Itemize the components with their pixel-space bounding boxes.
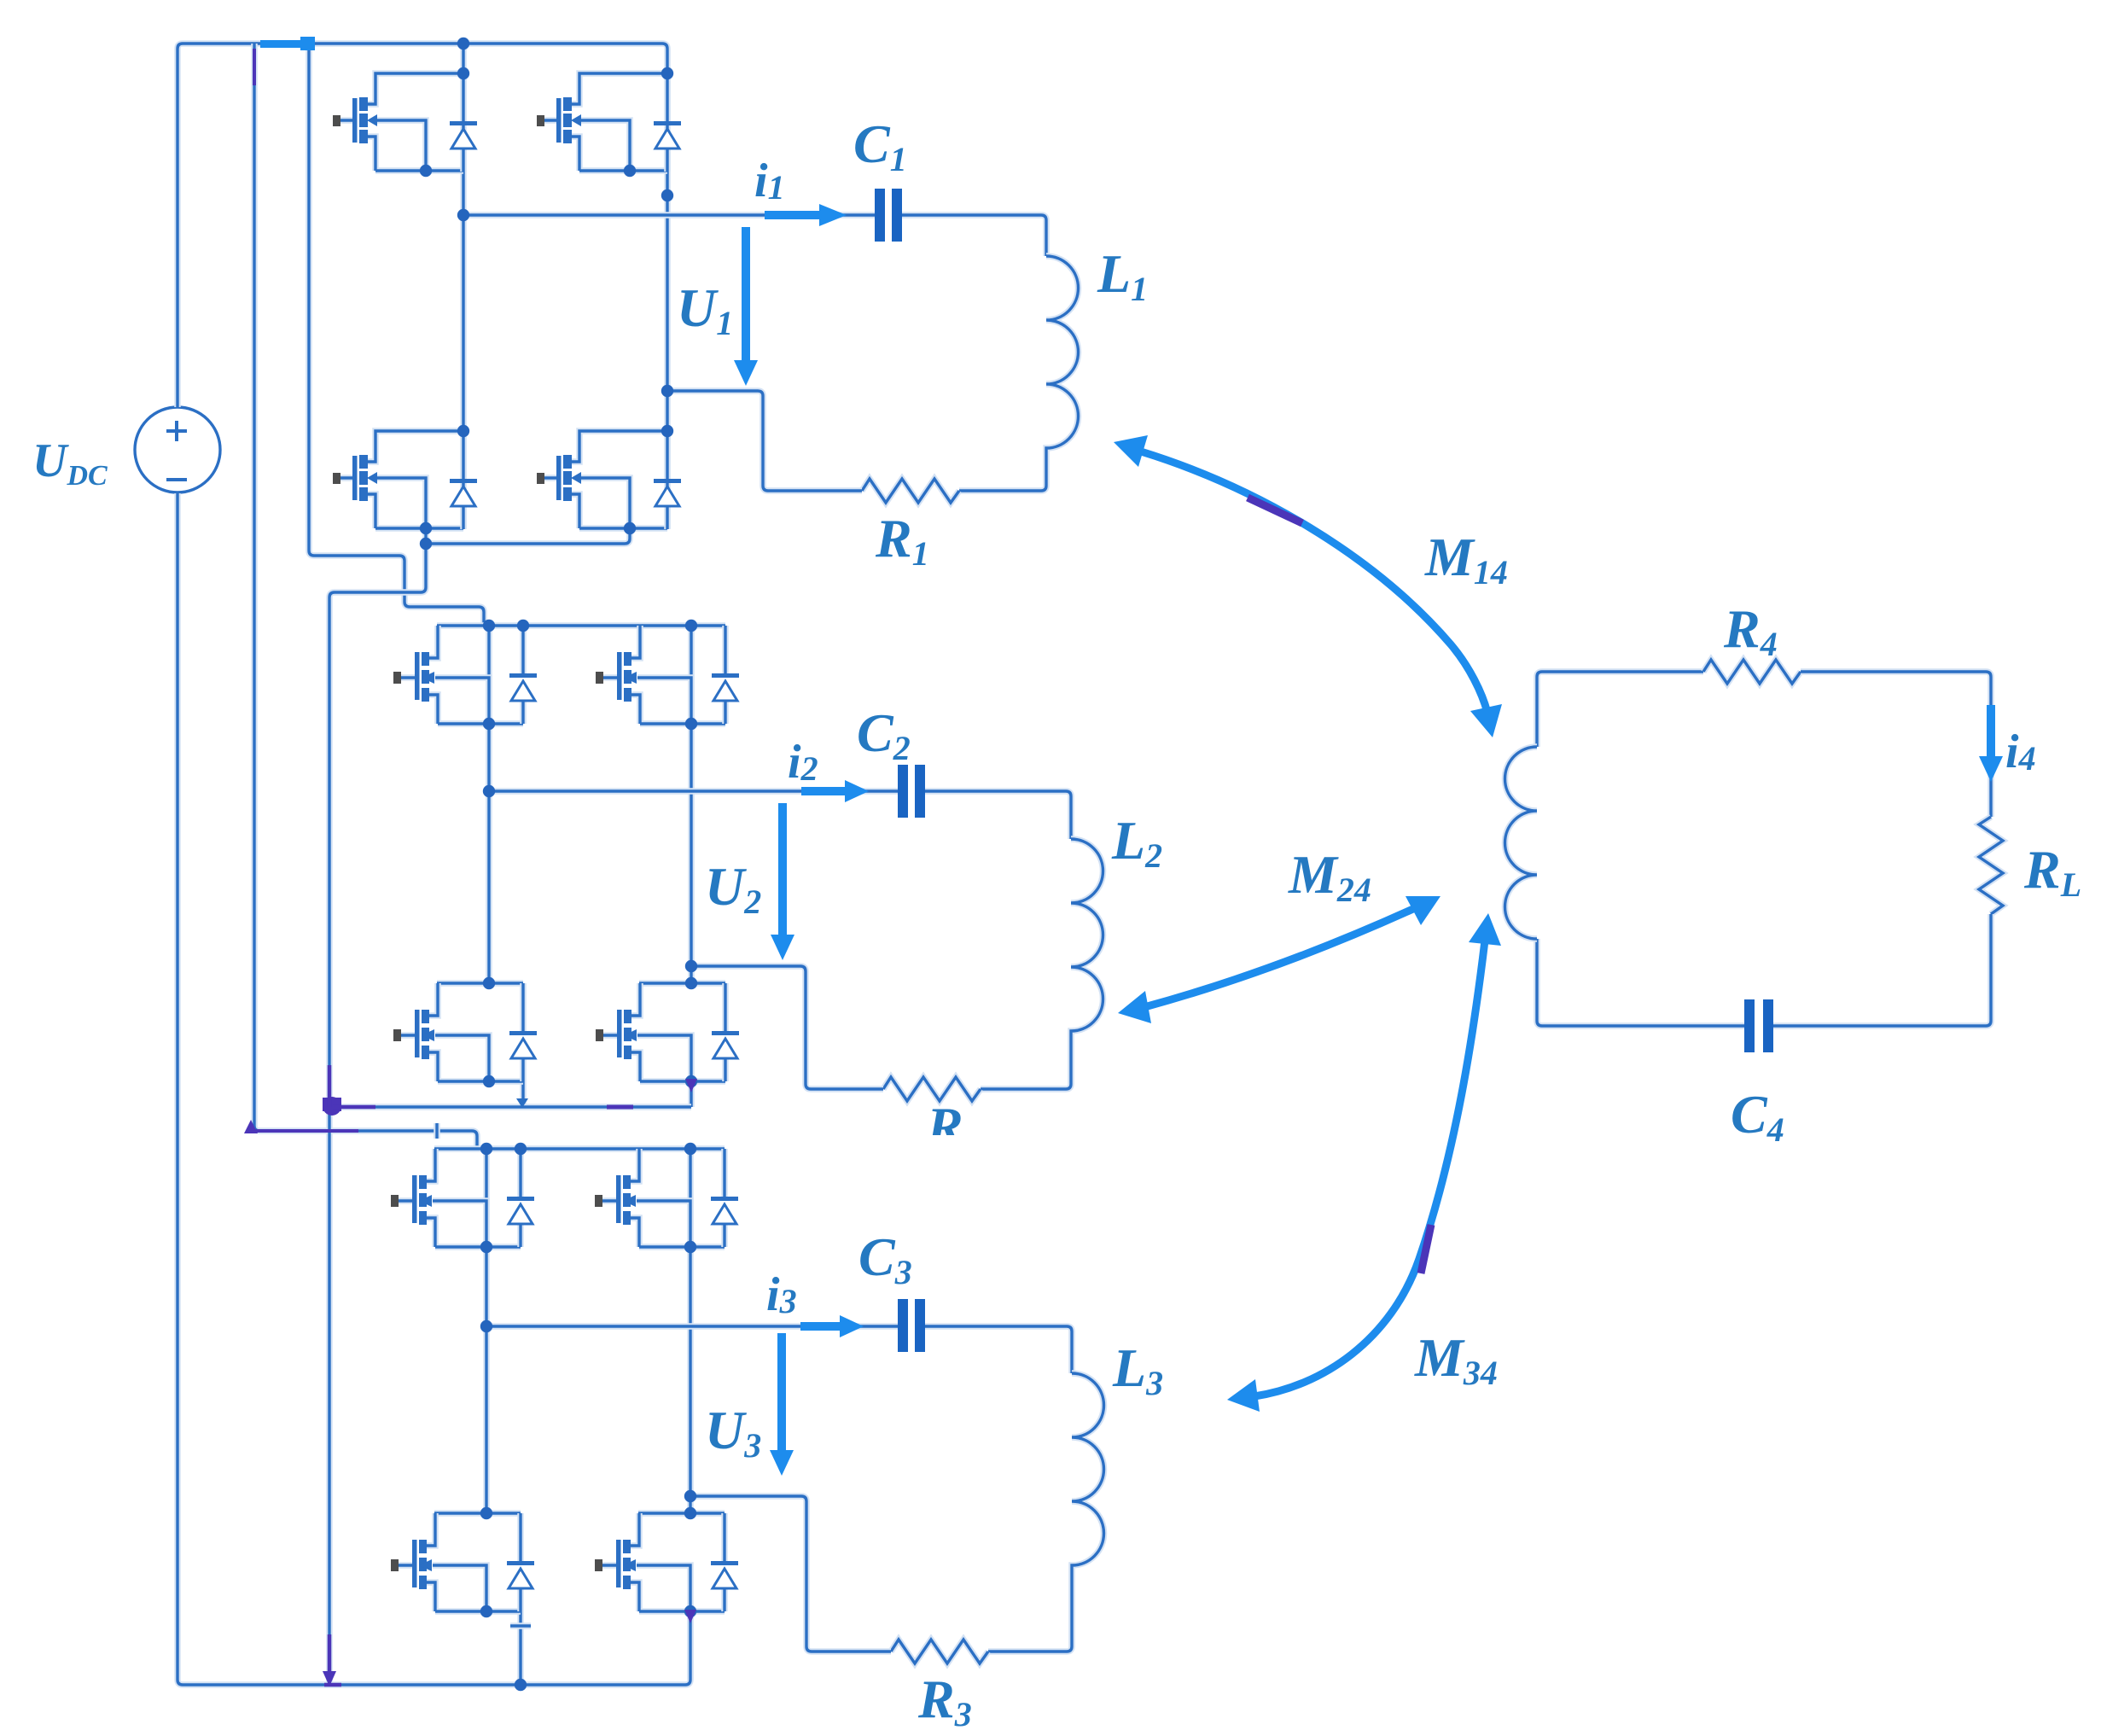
svg-text:RL: RL xyxy=(2023,839,2081,904)
wire bridge3 lower-right drain xyxy=(638,1510,725,1517)
transistor Q13 xyxy=(333,431,463,528)
node Q13 source xyxy=(420,522,432,534)
node bridge1 output A xyxy=(457,209,469,221)
node D31 top xyxy=(515,1143,527,1155)
node Q22 source xyxy=(685,718,697,730)
diode D11 xyxy=(450,73,477,172)
transistor Q32 xyxy=(595,1149,725,1247)
wire bridge2 output to C2 xyxy=(489,788,898,795)
node Q33 source xyxy=(480,1605,492,1617)
arrow mutual M24 xyxy=(1144,908,1415,1007)
wire bridge3 output to C3 xyxy=(486,1323,898,1330)
node Q34 drain xyxy=(684,1507,696,1519)
transistor Q14 xyxy=(537,431,667,528)
transistor Q12 xyxy=(537,73,667,171)
wire bridge2 left leg xyxy=(486,626,492,983)
svg-text:L2: L2 xyxy=(1111,810,1162,875)
node Q32 source xyxy=(684,1241,696,1253)
wire bridge2 lower-left drain xyxy=(437,980,523,987)
wire receiver top right xyxy=(1801,672,1991,817)
node bridge2 output B xyxy=(685,960,697,972)
node indigo junction bridge2 negative xyxy=(323,1097,341,1116)
svg-text:C4: C4 xyxy=(1731,1084,1784,1149)
wire bridge2 top rail xyxy=(437,622,725,629)
node indigo bridge2 lower right xyxy=(685,1079,697,1092)
resistor R2 zigzag xyxy=(883,1077,981,1101)
capacitor C2 xyxy=(898,765,925,818)
node Q24 drain xyxy=(685,977,697,989)
wire positive bus and bridge1 top rail and bridge1 right leg xyxy=(178,44,667,528)
wire bridge1 left leg xyxy=(460,44,467,528)
svg-text:U2: U2 xyxy=(705,856,761,921)
node Q21 source xyxy=(483,718,495,730)
node Q14 source xyxy=(624,522,636,534)
node Q23 drain xyxy=(483,977,495,989)
node indigo bridge3 lower right xyxy=(684,1610,696,1623)
wire indigo bus2 top xyxy=(253,49,256,85)
svg-text:M14: M14 xyxy=(1424,527,1508,591)
capacitor C1 xyxy=(875,189,902,242)
diode D14 xyxy=(654,431,681,529)
transistor Q33 xyxy=(391,1513,521,1611)
wire bridge3 lower-left drain xyxy=(434,1510,521,1517)
node Q24 source xyxy=(685,1075,697,1087)
inductor L3 xyxy=(988,1373,1104,1652)
diode D24 xyxy=(712,983,739,1081)
diode D31 xyxy=(507,1149,534,1247)
wire bridge2 stub tick xyxy=(434,1123,440,1139)
node Q12 drain xyxy=(661,67,673,79)
node bridge3 negative xyxy=(515,1679,527,1691)
wire indigo segment M14 xyxy=(1248,498,1302,523)
svg-text:C1: C1 xyxy=(853,114,907,178)
svg-text:i4: i4 xyxy=(2005,725,2036,778)
diode D32 xyxy=(711,1149,738,1247)
svg-text:L3: L3 xyxy=(1112,1337,1163,1402)
svg-text:i2: i2 xyxy=(788,736,818,789)
diode D33 xyxy=(507,1513,534,1611)
wire bridge3 right leg xyxy=(687,1149,694,1513)
transistor Q23 xyxy=(393,983,523,1081)
node bridge2 negative arrowhead xyxy=(516,1098,528,1108)
wire R2 to bridge2 midpoint xyxy=(691,966,883,1089)
wire bridge1 negative return xyxy=(329,544,426,1685)
node bridge3 rail right xyxy=(684,1143,696,1155)
transistor Q21 xyxy=(393,626,523,724)
inductor L1 xyxy=(959,256,1079,491)
wire receiver top left xyxy=(1537,672,1703,747)
arrow current i4 xyxy=(1987,705,1995,758)
node Q11 drain xyxy=(457,67,469,79)
node D21 top xyxy=(517,620,529,632)
transistor Q22 xyxy=(596,626,725,724)
svg-text:M24: M24 xyxy=(1288,844,1371,909)
node Q34 source xyxy=(684,1605,696,1617)
wire C3 to L3 xyxy=(925,1326,1072,1373)
wire receiver right bottom xyxy=(1773,914,1991,1026)
node bridge1 negative xyxy=(420,538,432,550)
wire bus to bridge3 supply xyxy=(254,44,477,1149)
node bridge3 output A xyxy=(480,1320,492,1332)
node bridge2 output A xyxy=(483,785,495,797)
voltage source UDC xyxy=(135,407,220,492)
wire R1 to bridge1 midpoint xyxy=(667,391,862,491)
svg-text:UDC: UDC xyxy=(32,434,108,492)
svg-text:U3: U3 xyxy=(705,1400,761,1465)
wire bridge3 top rail xyxy=(434,1145,725,1152)
arrow current i2 xyxy=(801,787,848,795)
svg-text:C2: C2 xyxy=(857,702,911,767)
inductor L2 xyxy=(981,839,1103,1089)
node bridge1 rail tap A xyxy=(457,38,469,50)
arrow voltage U1 xyxy=(742,227,750,364)
svg-text:U1: U1 xyxy=(677,277,733,342)
diode D22 xyxy=(712,626,739,724)
wire negative bus from source to bridge3 bottom rail xyxy=(178,493,690,1685)
transistor Q34 xyxy=(595,1513,725,1611)
node Q14 drain xyxy=(661,425,673,437)
transistor Q11 xyxy=(333,73,463,171)
wire C1 to L1 xyxy=(902,215,1046,256)
capacitor C4 xyxy=(1744,999,1773,1052)
node bridge2 rail right xyxy=(685,620,697,632)
node Q23 source xyxy=(483,1075,495,1087)
resistor RL zigzag xyxy=(1979,817,2003,914)
svg-text:R4: R4 xyxy=(1723,598,1778,663)
svg-text:i3: i3 xyxy=(766,1268,797,1321)
diode D21 xyxy=(509,626,537,724)
arrow mutual M34 xyxy=(1254,941,1485,1396)
wire bridge2 bottom rail xyxy=(329,1104,691,1110)
node bridge1 output B xyxy=(661,385,673,397)
capacitor C3 xyxy=(898,1299,925,1352)
wire bridge2 left stub xyxy=(520,1081,527,1107)
resistor R3 zigzag xyxy=(891,1640,988,1663)
node Q11 source xyxy=(420,165,432,177)
arrow current i1 xyxy=(765,211,823,219)
wire indigo bridge3 supply corner xyxy=(244,1120,258,1133)
wire receiver bottom left xyxy=(1537,939,1744,1026)
wire C2 to L2 xyxy=(925,791,1071,839)
arrow voltage U2 xyxy=(778,803,787,938)
wire indigo segment on bridge2 bottom rail xyxy=(607,1105,633,1110)
arrow mutual M14 xyxy=(1141,451,1487,713)
wire indigo bottom junction xyxy=(324,1634,341,1685)
diode D13 xyxy=(450,431,477,529)
resistor R1 zigzag xyxy=(862,479,959,503)
node bridge1 right leg xyxy=(661,189,673,201)
svg-text:R1: R1 xyxy=(875,508,929,573)
node bridge2 rail left xyxy=(483,620,495,632)
wire bridge2 right stub xyxy=(688,1081,695,1107)
wire bridge3 stub tick xyxy=(510,1622,531,1629)
svg-text:i1: i1 xyxy=(754,154,785,207)
wire bridge1 bottom rail xyxy=(426,528,630,544)
wire bus to bridge2 supply xyxy=(309,44,484,626)
diode D12 xyxy=(654,73,681,172)
svg-text:R3: R3 xyxy=(917,1669,972,1733)
wire indigo segment M34 xyxy=(1421,1225,1431,1273)
node bridge3 output B xyxy=(684,1490,696,1502)
wire bridge3 right stub xyxy=(687,1611,694,1680)
transistor Q24 xyxy=(596,983,725,1081)
node Q33 drain xyxy=(480,1507,492,1519)
svg-text:C3: C3 xyxy=(858,1226,912,1291)
arrow current i3 xyxy=(800,1322,843,1331)
node Q31 source xyxy=(480,1241,492,1253)
wire highlight on top rail xyxy=(260,40,315,48)
wire bridge2 right leg xyxy=(688,626,695,983)
node bridge3 rail left xyxy=(480,1143,492,1155)
diode D34 xyxy=(711,1513,738,1611)
inductor L4 coil xyxy=(1505,747,1537,939)
wire R3 to bridge3 midpoint xyxy=(690,1496,891,1652)
transistor Q31 xyxy=(391,1149,521,1247)
arrow voltage U3 xyxy=(777,1333,786,1453)
node Q12 source xyxy=(624,165,636,177)
wire bridge3 left stub xyxy=(517,1611,524,1685)
wire bridge3 left leg xyxy=(483,1149,490,1513)
svg-text:M34: M34 xyxy=(1414,1327,1498,1392)
resistor R4 zigzag xyxy=(1703,660,1801,684)
node Q13 drain xyxy=(457,425,469,437)
diode D23 xyxy=(509,983,537,1081)
wire bridge2 lower-right drain xyxy=(639,980,725,987)
svg-text:L1: L1 xyxy=(1097,243,1148,308)
wire bridge1 output to C1 xyxy=(463,212,875,218)
